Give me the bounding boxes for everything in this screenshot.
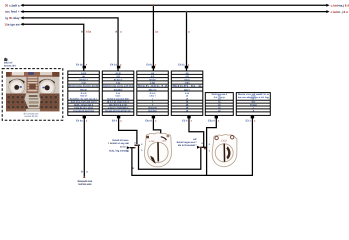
wire V3 from line1	[152, 5, 154, 71]
svg-text:Scw rm af aatt b a: Scw rm af aatt b a	[238, 93, 270, 96]
wire line 3	[23, 18, 118, 72]
svg-text:Rad of: Rad of	[80, 95, 87, 98]
junction V4	[186, 11, 188, 13]
svg-text:E4 8: E4 8	[146, 64, 152, 67]
photo icon	[4, 58, 7, 61]
arrow left line1	[20, 4, 23, 7]
pin dot S1 a	[134, 147, 136, 149]
pin dot S1 top	[160, 134, 162, 136]
arrow S2 feed	[197, 146, 200, 149]
connector below table exit1	[83, 116, 86, 118]
wire exit6 col6 drop	[251, 115, 253, 175]
svg-text:Trcl: Trcl	[251, 101, 255, 104]
svg-text:E3 4: E3 4	[182, 119, 188, 122]
svg-text:Schal 4 yaa gez dbn: Schal 4 yaa gez dbn	[107, 98, 130, 101]
svg-text:c.batrna.j 8.4: c.batrna.j 8.4	[331, 3, 349, 7]
ground symbol	[83, 176, 85, 178]
svg-text:E3 1: E3 1	[246, 119, 252, 122]
svg-text:0.5a: 0.5a	[86, 30, 92, 33]
junction V3	[153, 4, 155, 6]
svg-text:A4 B: A4 B	[81, 72, 86, 75]
svg-text:E4 11: E4 11	[178, 64, 185, 67]
svg-text:ba aa abggga a ht bg: ba aa abggga a ht bg	[238, 96, 270, 99]
svg-text:kombi 84-92: kombi 84-92	[24, 115, 38, 118]
wire bus 30 (line 1)	[23, 4, 327, 6]
wire exit2 to switch S1	[119, 115, 137, 144]
svg-text:Sich b 1: Sich b 1	[172, 85, 205, 88]
table column 3 box	[137, 71, 169, 115]
wire V4 from line2	[186, 12, 188, 72]
connector below table exit5	[215, 116, 218, 118]
wire exit4 to switch S2	[189, 115, 204, 147]
wire S2 left pin feed	[200, 146, 206, 148]
svg-text:4 R: 4 R	[185, 75, 189, 78]
arrow left line2	[20, 10, 23, 13]
svg-text:acc feed +: acc feed +	[5, 10, 20, 14]
svg-text:57 thg 7: 57 thg 7	[114, 78, 123, 81]
arrow left line4	[20, 23, 23, 26]
wire exit3 to switch S1 top	[153, 115, 160, 134]
arrow right line1	[326, 4, 329, 7]
svg-text:30 c.batt a: 30 c.batt a	[5, 3, 20, 7]
svg-text:ACC: ACC	[162, 140, 167, 143]
wire S1 left pin feed	[130, 147, 135, 149]
svg-text:brett links unten: brett links unten	[78, 183, 92, 186]
wire exit5 to rail	[207, 115, 217, 175]
svg-text:lde ln Drehslahl f: lde ln Drehslahl f	[178, 144, 197, 147]
svg-text:9 ca raa gf aod tt ba: 9 ca raa gf aod tt ba	[73, 109, 94, 112]
svg-text:Schl alt a.f aay aaa mal d: Schl alt a.f aay aaa mal d	[71, 101, 97, 104]
svg-text:8 ta 4: 8 ta 4	[150, 92, 156, 95]
table column 2 box	[102, 71, 134, 115]
connector below table exit6	[251, 116, 254, 118]
svg-text:B4 armaturen: B4 armaturen	[24, 113, 39, 116]
svg-text:bstgatrc: bstgatrc	[148, 109, 157, 112]
svg-text:Schlt app aan d: Schlt app aan d	[212, 93, 228, 96]
svg-text:1 Schalt a.l aay ver: 1 Schalt a.l aay ver	[108, 142, 129, 145]
svg-text:btb jkl 8 3 4 a mtl: btb jkl 8 3 4 a mtl	[109, 104, 127, 107]
svg-text:8 ta 6: 8 ta 6	[81, 92, 87, 95]
svg-text:Schalt ntl nnas: Schalt ntl nnas	[112, 139, 129, 142]
svg-text:Rel air: Rel air	[80, 88, 87, 91]
connector below table exit3	[152, 116, 155, 118]
svg-text:Sich abc f 2: Sich abc f 2	[138, 85, 170, 88]
svg-text:15a ign sw: 15a ign sw	[4, 22, 20, 26]
wire line 4	[23, 24, 84, 71]
svg-text:Schj, Tag amstbltj: Schj, Tag amstbltj	[109, 150, 129, 153]
corner dot rail lower	[132, 168, 133, 169]
svg-text:E4 16: E4 16	[76, 64, 83, 67]
svg-text:5 abl lta gb r aand: 5 abl lta gb r aand	[74, 106, 93, 109]
svg-text:57 thg: 57 thg	[149, 78, 156, 81]
svg-text:Schaltre: Schaltre	[114, 88, 123, 91]
svg-text:Sicherung cons g R-tt 6: Sicherung cons g R-tt 6	[103, 85, 134, 88]
svg-text:ECO: ECO	[221, 139, 226, 142]
svg-text:1-Ba: 1-Ba	[185, 82, 191, 85]
table column 6 box	[236, 93, 270, 116]
wire rail lower	[132, 148, 253, 176]
svg-text:ig /B relay: ig /B relay	[5, 16, 20, 20]
svg-text:8 al. 4 ga ja: 8 al. 4 ga ja	[214, 96, 226, 99]
svg-text:TnsL4: TnsL4	[250, 104, 257, 107]
svg-text:E4 4a: E4 4a	[76, 119, 83, 122]
switch S1 symbol	[144, 133, 171, 167]
connector below table exit2	[117, 116, 120, 118]
svg-text:Schalter, hy aan pa ab 7: Schalter, hy aan pa ab 7	[70, 98, 99, 101]
wire ground drop	[83, 115, 85, 177]
arrow right line2	[326, 10, 329, 13]
table column 5 box	[205, 93, 233, 116]
svg-text:Schalt regna ans f: Schalt regna ans f	[177, 141, 197, 144]
svg-text:1 dct b t ghdjckltb 4: 1 dct b t ghdjckltb 4	[108, 106, 129, 109]
svg-text:57 thg 7: 57 thg 7	[79, 78, 88, 81]
svg-text:A4 B: A4 B	[116, 72, 121, 75]
svg-text:4 R: 4 R	[151, 75, 155, 78]
svg-text:9a aaa atggga 4a hbg ttg: 9a aaa atggga 4a hbg ttg	[105, 109, 131, 112]
svg-text:4 har 7: 4 har 7	[149, 95, 157, 98]
svg-text:1-Ba: 1-Ba	[150, 82, 156, 85]
svg-text:c.lamn. j 8.4: c.lamn. j 8.4	[331, 10, 348, 14]
table column 4 box	[171, 71, 203, 115]
arrow S1 feed	[127, 146, 130, 149]
pin dot S2 b	[204, 148, 206, 150]
pin dot S2 a	[200, 146, 202, 148]
svg-text:Schj r: Schj r	[184, 88, 190, 91]
svg-text:Sicherung kombi 34-92: Sicherung kombi 34-92	[69, 85, 100, 88]
wire S1 pin stub	[135, 144, 140, 146]
svg-text:an bl: an bl	[120, 145, 126, 148]
svg-text:Mit ul a: Mit ul a	[149, 88, 157, 91]
svg-text:16 d. f ba yaaa d ak m: 16 d. f ba yaaa d ak m	[107, 101, 130, 104]
svg-text:7-3a: 7-3a	[81, 82, 86, 85]
svg-text:E3a 4: E3a 4	[208, 119, 215, 122]
wire rail upper	[139, 145, 201, 169]
wire bus 15 (line 2)	[23, 11, 327, 13]
svg-text:V OFF: V OFF	[149, 140, 156, 143]
table column 1 box	[68, 71, 100, 115]
svg-text:E4 14: E4 14	[110, 64, 117, 67]
svg-text:Schlt, appas aaa 4: Schlt, appas aaa 4	[74, 104, 94, 107]
photo dashboard	[6, 72, 60, 111]
svg-text:Innenr. B4: Innenr. B4	[4, 64, 16, 67]
svg-text:4 R: 4 R	[116, 75, 120, 78]
svg-text:E4a 8: E4a 8	[145, 119, 152, 122]
switch S2 symbol	[212, 135, 237, 167]
svg-text:Thsnger: Thsnger	[148, 106, 157, 109]
photo dashed frame	[2, 69, 63, 121]
pin dot S1 b	[137, 144, 139, 146]
svg-text:7-3a: 7-3a	[116, 82, 121, 85]
svg-text:laam: laam	[116, 95, 121, 98]
svg-text:wtf: wtf	[193, 138, 197, 141]
arrow left line3	[20, 16, 23, 19]
svg-text:E4 4: E4 4	[112, 119, 118, 122]
svg-text:57 th: 57 th	[184, 78, 190, 81]
connector below table exit4	[187, 116, 190, 118]
